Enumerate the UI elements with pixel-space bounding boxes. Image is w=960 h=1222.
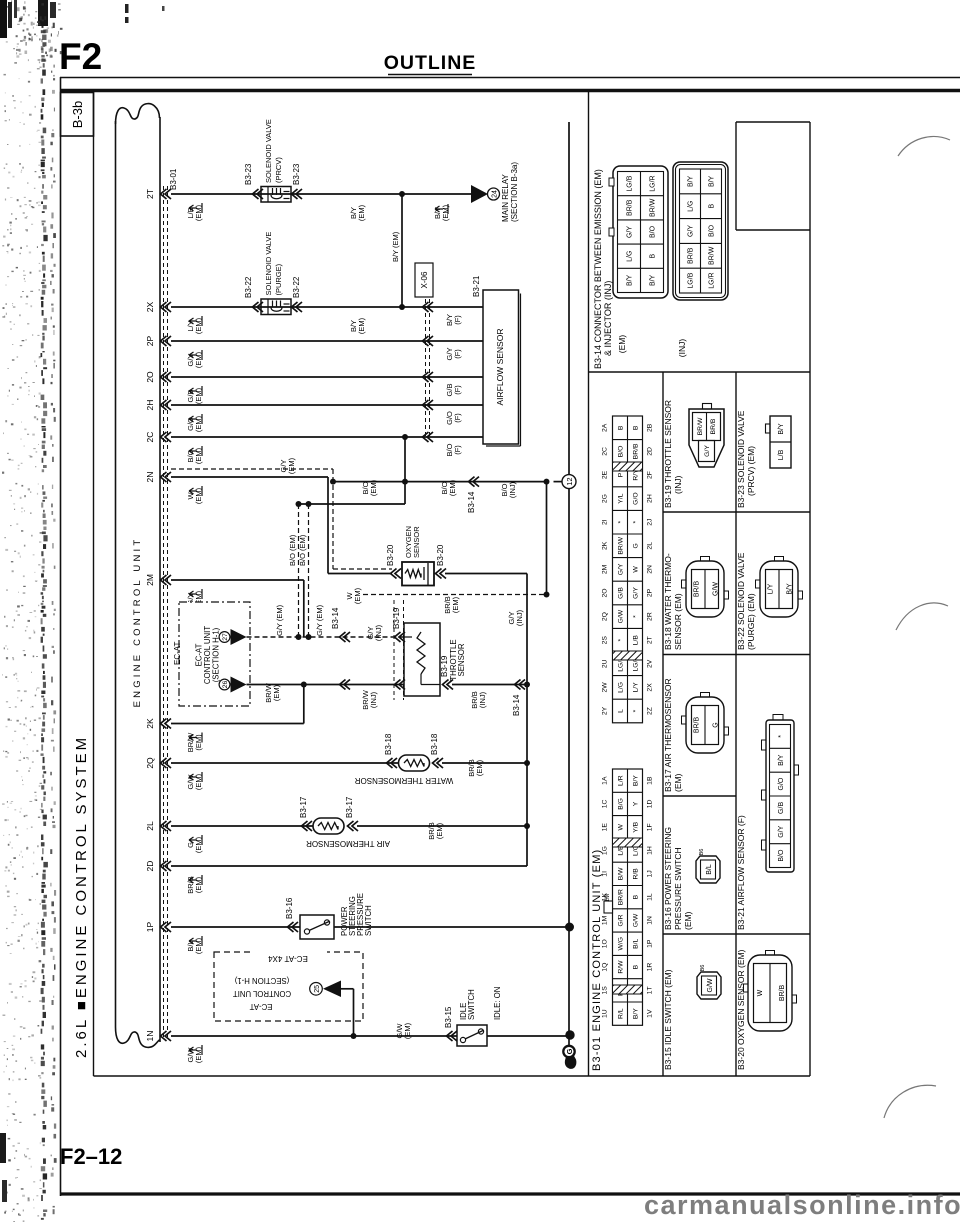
- svg-text:B/L: B/L: [633, 938, 640, 948]
- svg-text:B3-15 IDLE SWITCH (EM): B3-15 IDLE SWITCH (EM): [663, 969, 673, 1070]
- svg-text:SOLENOID VALVE: SOLENOID VALVE: [264, 119, 273, 183]
- svg-text:1C: 1C: [602, 800, 609, 809]
- scan curl arc top right: [898, 137, 950, 156]
- svg-text:SWITCH: SWITCH: [467, 989, 476, 1020]
- junction node 2T/X-06: [399, 191, 405, 197]
- svg-text:Y: Y: [633, 801, 640, 806]
- svg-text:2T: 2T: [145, 189, 155, 199]
- idle switch B3-15: [457, 1025, 487, 1046]
- header thin rule: [60, 77, 960, 79]
- svg-text:BR/B: BR/B: [694, 717, 701, 734]
- svg-text:G: G: [565, 1048, 574, 1054]
- svg-text:B3-22: B3-22: [292, 276, 301, 298]
- svg-text:G/Y (EM): G/Y (EM): [275, 604, 284, 636]
- wire 2N row W (EM): [171, 476, 328, 478]
- svg-text:(EM): (EM): [451, 596, 460, 613]
- svg-text:B3-17 AIR THERMOSENSOR: B3-17 AIR THERMOSENSOR: [663, 678, 673, 792]
- svg-text:26: 26: [222, 681, 229, 689]
- svg-text:1E: 1E: [602, 823, 609, 832]
- svg-text:2W: 2W: [602, 682, 609, 693]
- svg-text:AIRFLOW SENSOR: AIRFLOW SENSOR: [495, 329, 505, 406]
- svg-text:B/Y: B/Y: [627, 274, 634, 286]
- svg-text:B3-21: B3-21: [472, 275, 481, 297]
- svg-text:(INJ): (INJ): [478, 691, 487, 708]
- air thermosensor B3-17: [313, 818, 344, 834]
- B3-16 connector drawing: [696, 856, 720, 883]
- connector X-06: [415, 263, 433, 297]
- svg-text:P: P: [618, 472, 625, 477]
- svg-text:F2: F2: [59, 36, 102, 77]
- svg-text:BR/W: BR/W: [650, 198, 657, 217]
- svg-text:BR/B: BR/B: [710, 418, 717, 434]
- svg-text:2L: 2L: [145, 821, 155, 831]
- svg-text:G/W: G/W: [713, 582, 720, 596]
- wire 2L row: [171, 825, 313, 827]
- svg-text:(EM): (EM): [448, 479, 457, 496]
- header thick rule: [60, 89, 960, 93]
- svg-text:X-06: X-06: [420, 271, 429, 288]
- svg-text:B: B: [709, 204, 716, 209]
- svg-text:1N: 1N: [647, 916, 654, 925]
- svg-text:EC-AT: EC-AT: [249, 1002, 272, 1011]
- svg-text:G/O: G/O: [633, 492, 640, 504]
- svg-text:B/W: B/W: [618, 867, 625, 880]
- key slot hatch 1-series: [613, 838, 643, 847]
- wire 2P row: [171, 340, 483, 342]
- panel row divider y934: [663, 933, 810, 935]
- svg-text:(PRCV) (EM): (PRCV) (EM): [746, 446, 756, 496]
- page left border: [60, 77, 62, 1196]
- svg-text:2V: 2V: [647, 659, 654, 668]
- svg-text:2Y: 2Y: [602, 706, 609, 715]
- svg-text:(PURGE): (PURGE): [274, 263, 283, 295]
- svg-text:BR/W: BR/W: [697, 417, 704, 435]
- svg-text:2Q: 2Q: [145, 757, 155, 769]
- right panel divider x736 lower: [735, 372, 737, 1076]
- svg-text:2X: 2X: [145, 301, 155, 312]
- svg-text:2Q: 2Q: [602, 612, 609, 621]
- svg-text:2P: 2P: [647, 588, 654, 597]
- svg-text:B/Y: B/Y: [633, 775, 640, 786]
- svg-text:(PRCV): (PRCV): [274, 157, 283, 183]
- svg-text:B/L: B/L: [706, 864, 713, 875]
- svg-text:1D: 1D: [647, 800, 654, 809]
- solenoid valve B3-22 (PURGE): [253, 302, 264, 312]
- svg-text:1F: 1F: [647, 823, 654, 831]
- svg-text:ENGINE CONTROL UNIT: ENGINE CONTROL UNIT: [132, 537, 143, 708]
- svg-text:*: *: [618, 521, 625, 524]
- svg-text:B: B: [633, 425, 640, 430]
- svg-text:B3-15: B3-15: [444, 1006, 453, 1028]
- throttle sensor box: [404, 623, 440, 696]
- svg-text:B: B: [633, 894, 640, 899]
- svg-text:27: 27: [222, 633, 229, 641]
- EC-AT 4x4 arrow 25: [323, 981, 341, 998]
- svg-text:L/B: L/B: [778, 449, 785, 460]
- svg-text:*: *: [633, 709, 640, 712]
- svg-text:*: *: [618, 639, 625, 642]
- wire 2Q row: [171, 762, 398, 764]
- svg-text:L/Y: L/Y: [633, 682, 640, 693]
- svg-text:G/Y: G/Y: [688, 225, 695, 237]
- svg-text:2K: 2K: [145, 718, 155, 729]
- svg-text:L/G: L/G: [618, 682, 625, 693]
- svg-text:G/Y: G/Y: [778, 825, 785, 837]
- B3-14 INJ connector: [673, 162, 728, 300]
- throttle dashed boundary: [393, 600, 395, 700]
- svg-text:1M: 1M: [605, 894, 611, 902]
- junction node B/O(INJ): [544, 479, 550, 485]
- svg-text:(F): (F): [453, 315, 462, 325]
- svg-text:(INJ): (INJ): [369, 691, 378, 708]
- svg-text:B3-14 CONNECTOR BETWEEN EMISSI: B3-14 CONNECTOR BETWEEN EMISSION (EM): [593, 169, 603, 369]
- panel row divider y796: [663, 795, 736, 797]
- wire BR/B (INJ): [452, 684, 527, 686]
- airflow connector chevron G/Y(F): [423, 336, 434, 346]
- svg-text:2.6L ■ENGINE CONTROL SYSTEM: 2.6L ■ENGINE CONTROL SYSTEM: [73, 735, 90, 1058]
- svg-text:B3-20: B3-20: [386, 544, 395, 566]
- ground bus lower: [568, 489, 570, 1046]
- svg-text:B6: B6: [700, 965, 706, 972]
- svg-text:(INJ): (INJ): [515, 609, 524, 626]
- svg-text:Y/L: Y/L: [618, 493, 625, 503]
- svg-text:B/O: B/O: [650, 225, 657, 238]
- wire B/Y (EM) vertical to X-06: [401, 194, 403, 307]
- svg-text:LG/B: LG/B: [627, 175, 634, 191]
- ground bus upper: [568, 122, 570, 475]
- svg-text:(F): (F): [453, 445, 462, 455]
- B3-15 connector drawing: [697, 972, 721, 999]
- svg-text:WATER THERMOSENSOR: WATER THERMOSENSOR: [355, 776, 454, 785]
- svg-text:G/W: G/W: [707, 978, 714, 992]
- right panel divider x736 upper: [735, 122, 737, 230]
- panel row divider y654: [663, 654, 810, 656]
- svg-text:G/Y: G/Y: [704, 445, 711, 457]
- svg-text:CONTROL UNIT: CONTROL UNIT: [233, 989, 291, 998]
- svg-text:(EM): (EM): [673, 773, 683, 792]
- svg-text:B/Y: B/Y: [633, 1008, 640, 1019]
- svg-text:L: L: [618, 709, 625, 713]
- svg-text:L/B: L/B: [633, 635, 640, 646]
- wire y504 row with B/O drops: [299, 503, 406, 505]
- airflow connector chevron B/O(F): [423, 432, 434, 442]
- svg-text:(EM): (EM): [369, 479, 378, 496]
- svg-text:B/Y: B/Y: [778, 423, 785, 435]
- svg-text:G: G: [713, 722, 720, 727]
- svg-text:(EM): (EM): [357, 317, 366, 334]
- wire BR/B from water thermosensor: [442, 762, 527, 764]
- svg-text:B3-17: B3-17: [299, 796, 308, 818]
- B3-21 connector drawing: [766, 720, 794, 872]
- B3-23 connector drawing: [770, 416, 791, 468]
- svg-text:BR/B: BR/B: [627, 199, 634, 216]
- svg-text:Y/B: Y/B: [633, 821, 640, 832]
- svg-text:R/W: R/W: [618, 960, 625, 974]
- svg-text:B6: B6: [699, 849, 705, 856]
- svg-text:B/Y: B/Y: [650, 274, 657, 286]
- svg-text:2U: 2U: [602, 659, 609, 668]
- svg-text:B/O (EM): B/O (EM): [288, 534, 297, 566]
- airflow connector dashed boundary: [425, 299, 427, 437]
- svg-text:2O: 2O: [602, 588, 609, 597]
- svg-text:2D: 2D: [145, 861, 155, 872]
- svg-text:2H: 2H: [145, 400, 155, 411]
- svg-text:BR/R: BR/R: [618, 889, 625, 905]
- svg-text:B3-16: B3-16: [285, 897, 294, 919]
- svg-text:BR/W: BR/W: [709, 246, 716, 265]
- svg-text:R/L: R/L: [618, 1008, 625, 1019]
- svg-text:B: B: [618, 425, 625, 430]
- svg-text:(INJ): (INJ): [677, 339, 687, 358]
- wire 2D row: [171, 865, 527, 867]
- right panel divider x663: [662, 372, 664, 1076]
- svg-text:IDLE: ON: IDLE: ON: [493, 987, 502, 1020]
- svg-text:B3-18: B3-18: [384, 733, 393, 755]
- svg-text:2Z: 2Z: [647, 707, 654, 715]
- svg-text:G/Y: G/Y: [633, 587, 640, 599]
- svg-text:1J: 1J: [647, 870, 654, 877]
- svg-text:(EM): (EM): [475, 759, 484, 776]
- EC-AT 4x4 control unit dashed box: [214, 952, 363, 1021]
- svg-text:BR/B: BR/B: [694, 581, 701, 598]
- corner cell divider y230: [736, 229, 810, 231]
- scan curl arc middle right: [896, 603, 948, 630]
- bottom rule: [60, 1192, 960, 1195]
- power steering pressure switch B3-16: [300, 915, 334, 939]
- B3-01 pin table 1A-1V: [613, 769, 643, 1025]
- diagram bottom border: [94, 1075, 811, 1077]
- svg-text:1S: 1S: [602, 986, 609, 995]
- B3-14 EM connector: [613, 166, 668, 298]
- svg-text:2R: 2R: [647, 612, 654, 621]
- svg-text:B/Y: B/Y: [709, 175, 716, 187]
- svg-text:B3-18 WATER THERMO-: B3-18 WATER THERMO-: [663, 553, 673, 650]
- B3-20 connector drawing: [748, 955, 792, 1031]
- svg-text:1R: 1R: [647, 963, 654, 972]
- svg-text:B3-17: B3-17: [345, 796, 354, 818]
- ground symbol G: [565, 1055, 577, 1069]
- svg-text:2X: 2X: [647, 683, 654, 692]
- svg-text:W: W: [633, 566, 640, 573]
- svg-text:2A: 2A: [602, 423, 609, 432]
- svg-text:(F): (F): [453, 349, 462, 359]
- wire 2M row: [171, 579, 304, 581]
- svg-text:12: 12: [565, 477, 574, 485]
- svg-text:1A: 1A: [602, 776, 609, 785]
- svg-text:B3-20 OXYGEN SENSOR (EM): B3-20 OXYGEN SENSOR (EM): [736, 949, 746, 1070]
- svg-text:G/W: G/W: [633, 913, 640, 927]
- svg-text:1B: 1B: [647, 776, 654, 785]
- EC-AT output arrow 27: [231, 629, 247, 645]
- main relay arrow 24: [471, 185, 488, 203]
- svg-text:B3-19: B3-19: [440, 655, 449, 677]
- svg-text:B3-01: B3-01: [169, 168, 178, 190]
- svg-text:W: W: [618, 823, 625, 830]
- svg-text:G/W: G/W: [618, 609, 625, 623]
- svg-text:*: *: [633, 615, 640, 618]
- svg-text:B3-14: B3-14: [467, 491, 476, 513]
- wire G/Y to throttle sensor: [247, 636, 405, 638]
- airflow sensor box: [483, 290, 519, 444]
- svg-text:2F: 2F: [647, 471, 654, 479]
- wire BR/B from air thermosensor: [357, 825, 527, 827]
- svg-text:2J: 2J: [647, 519, 654, 526]
- svg-text:B/O: B/O: [778, 849, 785, 862]
- wire 2T row: [171, 193, 471, 195]
- svg-text:2N: 2N: [647, 565, 654, 574]
- svg-text:BR/B: BR/B: [688, 247, 695, 264]
- svg-text:LG/R: LG/R: [650, 175, 657, 191]
- svg-text:B/Y: B/Y: [787, 583, 794, 595]
- svg-text:W: W: [757, 989, 764, 996]
- junction node 2C drop: [402, 434, 408, 440]
- svg-text:SWITCH: SWITCH: [364, 905, 373, 936]
- svg-text:25: 25: [314, 985, 321, 993]
- svg-text:F2–12: F2–12: [60, 1144, 122, 1169]
- svg-text:SENSOR: SENSOR: [457, 643, 466, 676]
- svg-text:B/Y: B/Y: [688, 175, 695, 187]
- tab B-3b: [61, 93, 94, 137]
- water thermosensor B3-18: [399, 755, 430, 771]
- svg-text:(EM): (EM): [357, 204, 366, 221]
- svg-text:1P: 1P: [145, 921, 155, 932]
- svg-text:2C: 2C: [602, 447, 609, 456]
- svg-text:1G: 1G: [602, 846, 609, 855]
- svg-text:B3-14: B3-14: [331, 607, 340, 629]
- oxygen sensor B3-20: [391, 569, 402, 579]
- svg-text:BR/B: BR/B: [633, 443, 640, 459]
- svg-text:G/B: G/B: [778, 802, 785, 814]
- svg-text:OUTLINE: OUTLINE: [384, 52, 477, 74]
- ground node circle 12: [554, 481, 563, 483]
- svg-text:B3-14: B3-14: [512, 694, 521, 716]
- wire 1P row: [171, 926, 300, 928]
- svg-text:AIR THERMOSENSOR: AIR THERMOSENSOR: [306, 839, 390, 848]
- airflow connector chevron G/B(F): [423, 372, 434, 382]
- svg-text:carmanualsonline.info: carmanualsonline.info: [644, 1190, 960, 1220]
- svg-text:& INJECTOR (INJ): & INJECTOR (INJ): [603, 281, 613, 356]
- B3-18 connector drawing: [686, 561, 724, 617]
- svg-text:(EM): (EM): [272, 684, 281, 701]
- svg-text:B: B: [633, 964, 640, 969]
- svg-text:2E: 2E: [602, 470, 609, 479]
- svg-text:(EM): (EM): [441, 204, 450, 221]
- right panel right border: [809, 122, 811, 1076]
- dashed B/O (EM) drops: [298, 504, 300, 637]
- svg-text:2B: 2B: [647, 423, 654, 432]
- svg-text:(F): (F): [453, 385, 462, 395]
- svg-text:(EM): (EM): [287, 457, 296, 474]
- svg-text:1N: 1N: [145, 1031, 155, 1042]
- svg-text:2H: 2H: [647, 494, 654, 503]
- svg-text:EC-AT: EC-AT: [173, 641, 182, 665]
- svg-text:B3-22 SOLENOID VALVE: B3-22 SOLENOID VALVE: [736, 552, 746, 650]
- svg-text:1P: 1P: [647, 939, 654, 948]
- svg-text:1M: 1M: [602, 915, 609, 925]
- svg-text:B/O: B/O: [618, 446, 625, 458]
- svg-text:1L: 1L: [647, 893, 654, 901]
- key slot hatch 2-series: [613, 462, 643, 471]
- svg-text:2C: 2C: [145, 432, 155, 443]
- wire idle to ground bus: [487, 1035, 569, 1037]
- svg-text:LG/R: LG/R: [709, 272, 716, 288]
- 1M tab: [604, 901, 613, 913]
- B3-01 pin table 2A-2Z: [613, 416, 643, 723]
- svg-text:LG/B: LG/B: [688, 272, 695, 288]
- svg-text:B/Y (EM): B/Y (EM): [391, 231, 400, 262]
- svg-text:W/G: W/G: [618, 937, 625, 951]
- svg-text:2P: 2P: [145, 335, 155, 346]
- svg-text:B/O: B/O: [709, 224, 716, 237]
- B3-22 connector drawing: [760, 561, 798, 617]
- svg-text:EC-AT 4X4: EC-AT 4X4: [268, 954, 308, 963]
- B3-17 connector drawing: [686, 697, 724, 753]
- ECU connector body outline: [116, 104, 160, 124]
- svg-text:*: *: [778, 735, 785, 738]
- svg-text:(F): (F): [453, 413, 462, 423]
- svg-text:BR/W: BR/W: [618, 536, 625, 554]
- svg-text:2K: 2K: [602, 541, 609, 550]
- svg-text:R/B: R/B: [633, 868, 640, 880]
- wire 2K row: [171, 723, 304, 725]
- svg-text:G: G: [633, 543, 640, 548]
- svg-text:B3-23: B3-23: [292, 163, 301, 185]
- svg-text:(INJ): (INJ): [673, 475, 683, 494]
- svg-text:(EM): (EM): [617, 335, 627, 354]
- svg-text:2S: 2S: [602, 636, 609, 645]
- svg-text:(EM): (EM): [403, 1022, 412, 1039]
- scan curl arc bottom right: [884, 1085, 936, 1118]
- svg-text:PRESSURE SWITCH: PRESSURE SWITCH: [673, 847, 683, 930]
- svg-text:(INJ): (INJ): [374, 624, 383, 641]
- svg-text:L/G: L/G: [688, 201, 695, 212]
- ECU dashed connector boundary: [163, 186, 165, 1040]
- right panel left border: [588, 92, 590, 1076]
- airflow connector chevron B/Y(F): [423, 302, 434, 312]
- solenoid valve B3-23 (PRCV): [253, 189, 264, 199]
- svg-text:(EM): (EM): [435, 822, 444, 839]
- svg-text:B3-19: B3-19: [392, 607, 401, 629]
- wire dashed G/Y (INJ) row: [363, 594, 547, 596]
- EC-AT control unit box: [179, 602, 250, 706]
- wire B/O (EM) row: [333, 481, 547, 483]
- svg-text:G/Y: G/Y: [618, 563, 625, 575]
- svg-text:(INJ): (INJ): [508, 481, 517, 498]
- svg-text:(EM): (EM): [683, 911, 693, 930]
- junction node 2X: [399, 304, 405, 310]
- svg-text:2M: 2M: [145, 574, 155, 586]
- scanner edge noise: [0, 0, 165, 1222]
- wire BR/W to throttle sensor: [247, 684, 405, 686]
- svg-text:BR/B: BR/B: [779, 985, 786, 1002]
- svg-text:(SECTION H-1): (SECTION H-1): [234, 976, 289, 985]
- svg-text:B3-22: B3-22: [244, 276, 253, 298]
- svg-text:SOLENOID VALVE: SOLENOID VALVE: [264, 232, 273, 296]
- BR/B bus vertical: [526, 574, 528, 867]
- svg-text:(SECTION B-3a): (SECTION B-3a): [510, 162, 519, 222]
- svg-text:1V: 1V: [647, 1009, 654, 1018]
- svg-text:G/B: G/B: [618, 587, 625, 599]
- svg-text:2G: 2G: [602, 494, 609, 503]
- panel row divider y512: [663, 511, 810, 513]
- svg-text:B/O (EM): B/O (EM): [298, 534, 307, 566]
- airflow connector chevron G/O(F): [423, 400, 434, 410]
- svg-text:B3-20: B3-20: [436, 544, 445, 566]
- svg-text:2I: 2I: [602, 519, 609, 525]
- svg-text:B/G: B/G: [618, 798, 625, 810]
- svg-text:L/G: L/G: [627, 251, 634, 262]
- svg-text:MAIN RELAY: MAIN RELAY: [501, 173, 510, 222]
